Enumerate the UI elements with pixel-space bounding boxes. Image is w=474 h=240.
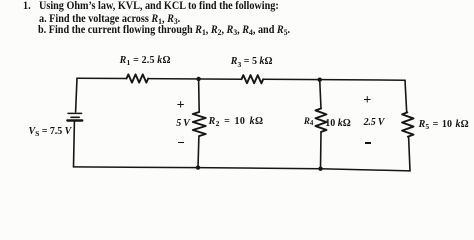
node B junction dot — [318, 78, 322, 82]
battery Vs plate middle short — [71, 116, 79, 118]
wire R2 branch upper — [198, 79, 201, 112]
label R4 value — [325, 119, 351, 129]
label R5 value — [419, 120, 469, 130]
problem statement line b — [38, 25, 290, 36]
wire R4 branch upper — [320, 80, 321, 109]
label R1 value — [120, 56, 171, 66]
label R3 value — [231, 57, 273, 67]
node D junction dot (bottom, R4 branch) — [318, 167, 322, 171]
wire R5 branch lower — [409, 137, 410, 171]
label plus sign R2 — [177, 99, 185, 113]
problem statement line 1 — [39, 1, 279, 12]
label R4 — [304, 117, 313, 126]
wire R5 branch upper — [405, 80, 407, 112]
battery Vs plate top long — [68, 112, 82, 114]
problem statement line a — [39, 14, 180, 25]
label minus sign R2 — [178, 142, 183, 144]
label R2 value — [209, 117, 264, 127]
resistor R1 — [127, 74, 149, 82]
label minus sign R4 — [365, 142, 371, 144]
resistor R5 — [402, 112, 413, 136]
resistor R3 — [242, 75, 264, 83]
wire top-left segment — [77, 77, 127, 79]
wire R2 branch lower — [197, 136, 200, 168]
wire top-middle segment — [148, 78, 241, 81]
wire left branch upper — [76, 78, 77, 112]
problem statement number — [23, 1, 31, 12]
label Vs value — [29, 127, 72, 137]
label plus sign R4 — [363, 94, 371, 108]
wire bottom segment — [74, 167, 411, 171]
wire left branch lower — [73, 122, 76, 167]
node C junction dot (bottom, R2 branch) — [196, 165, 200, 169]
label 5 V across R2 — [176, 119, 189, 129]
node A junction dot — [196, 77, 200, 81]
wire top-right segment — [263, 78, 405, 81]
battery Vs plate bottom long thick — [67, 119, 82, 121]
resistor R2 — [193, 112, 206, 136]
wire R4 branch lower — [320, 132, 323, 169]
resistor R4 — [316, 109, 327, 132]
label 2.5 V across R4 — [364, 118, 385, 128]
